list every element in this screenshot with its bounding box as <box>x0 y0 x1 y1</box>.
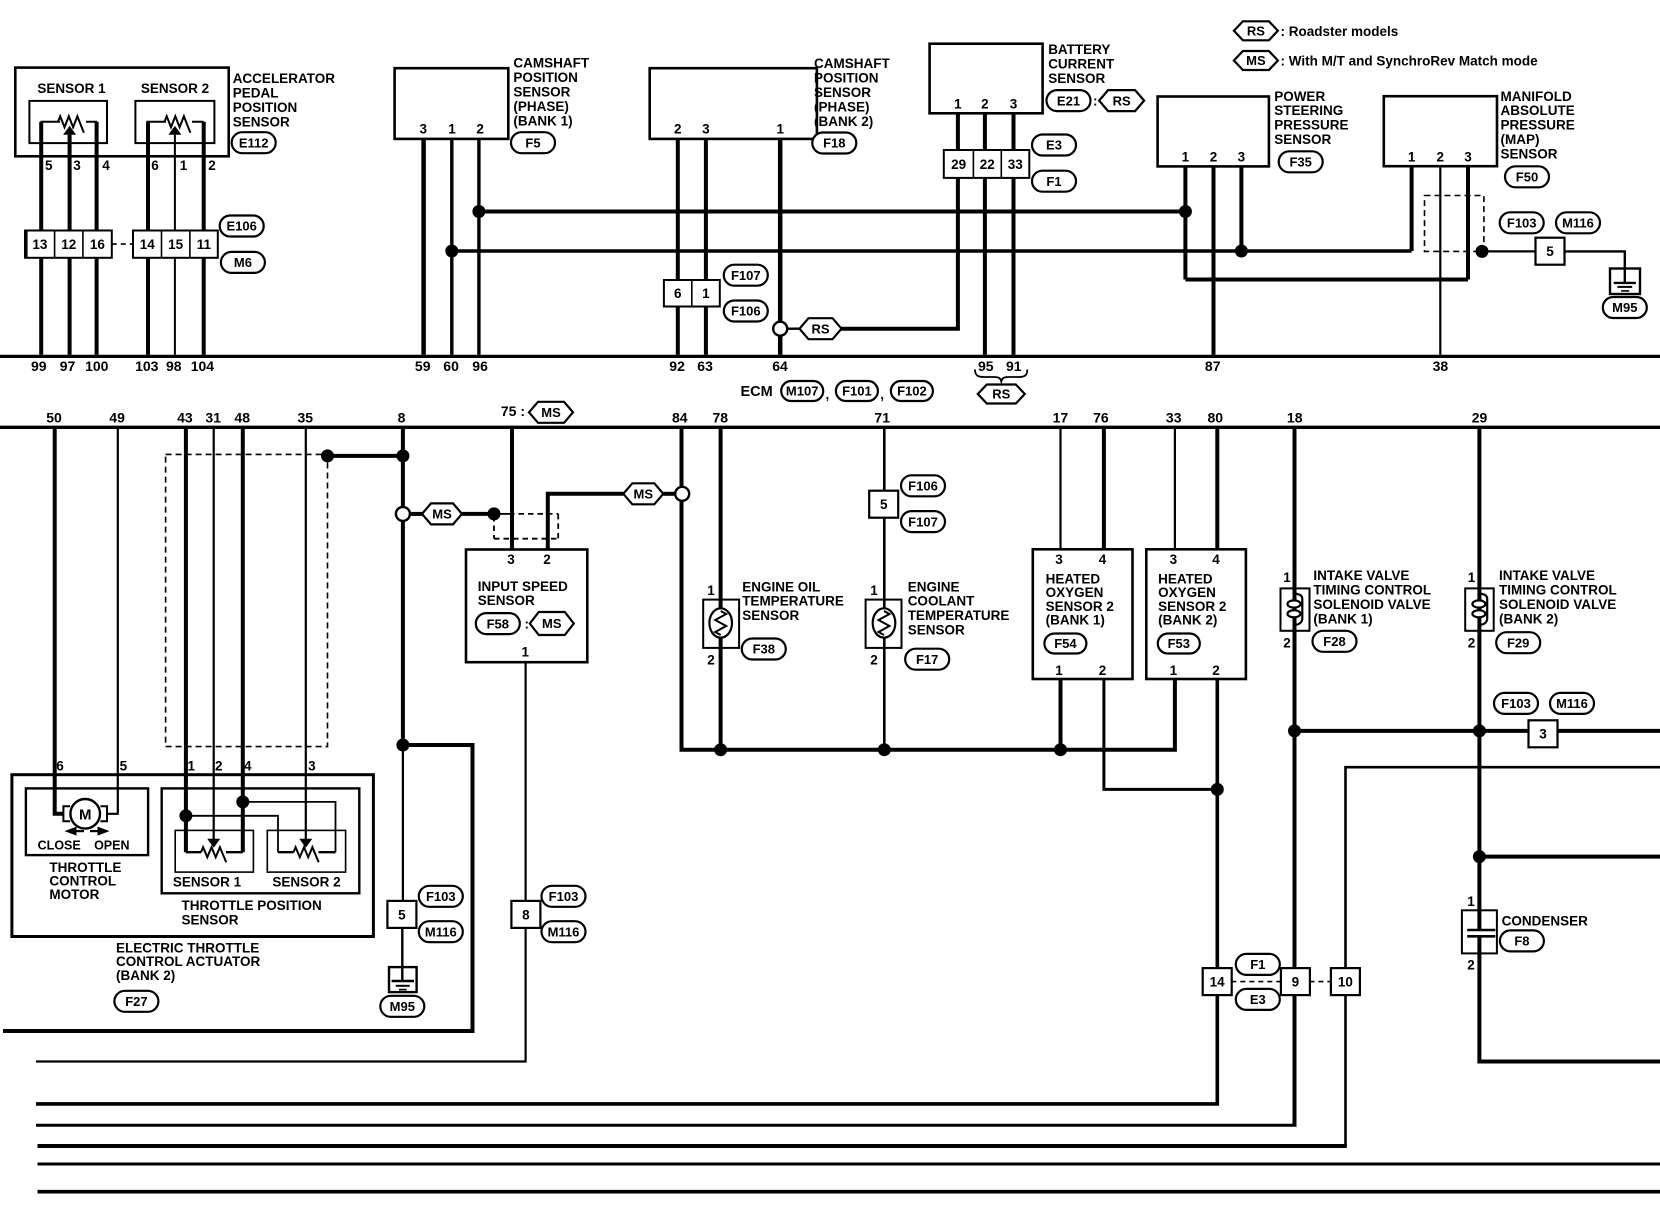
svg-text:2: 2 <box>981 97 989 112</box>
svg-text:2: 2 <box>1437 150 1445 165</box>
wire ECM 18 to solenoid bank1 <box>1293 428 1297 1125</box>
svg-text:6: 6 <box>56 759 64 774</box>
junction dot wire60 <box>445 245 458 258</box>
svg-text:SENSOR 2: SENSOR 2 <box>272 875 340 890</box>
svg-text:OXYGEN: OXYGEN <box>1158 585 1216 600</box>
svg-text:SENSOR: SENSOR <box>1048 71 1105 86</box>
svg-text:75 :: 75 : <box>501 403 525 419</box>
svg-text:98: 98 <box>166 358 182 374</box>
svg-text:INTAKE VALVE: INTAKE VALVE <box>1499 568 1595 583</box>
throttle position sensor box <box>162 788 360 893</box>
engine coolant temperature sensor F17 <box>866 583 902 668</box>
connector F5 oval <box>511 132 555 153</box>
svg-text:50: 50 <box>46 410 62 426</box>
svg-text:2: 2 <box>1283 636 1291 651</box>
wire HO2S2 pin3 to ECM 33 <box>1174 428 1176 549</box>
svg-text:14: 14 <box>1210 975 1226 990</box>
junction dot wire29 branch <box>1473 850 1486 863</box>
svg-text:F17: F17 <box>916 652 938 667</box>
svg-text:F53: F53 <box>1168 636 1190 651</box>
wire condenser pin2 to right edge <box>1479 936 1660 1061</box>
ground M95 oval left <box>380 996 424 1017</box>
svg-text:11: 11 <box>197 237 212 252</box>
svg-text:RS: RS <box>992 387 1010 402</box>
svg-text:2: 2 <box>870 653 878 668</box>
svg-text:CLOSE: CLOSE <box>38 839 81 853</box>
legend RS : Roadster models <box>1234 21 1398 40</box>
bottom bus line 5 <box>38 1144 1347 1148</box>
wire ECM 78 through oil temp sensor <box>719 428 723 750</box>
svg-text:99: 99 <box>31 358 47 374</box>
svg-text:F101: F101 <box>842 384 872 399</box>
svg-text:(BANK 2): (BANK 2) <box>1158 613 1217 628</box>
svg-text:2: 2 <box>208 158 216 173</box>
svg-text:1: 1 <box>707 583 715 598</box>
connector F1 oval bottom <box>1236 954 1280 975</box>
svg-text:95: 95 <box>978 358 994 374</box>
bus PS pin1 to MAP pin3 <box>1185 278 1468 282</box>
label ACCELERATOR PEDAL POSITION SENSOR <box>233 71 336 130</box>
label POWER STEERING PRESSURE SENSOR <box>1274 89 1348 147</box>
connector F103 oval top <box>1500 212 1544 233</box>
label THROTTLE CONTROL MOTOR <box>49 860 121 902</box>
engine oil temperature sensor F38 <box>703 583 739 668</box>
svg-text:SENSOR: SENSOR <box>1501 146 1558 161</box>
svg-text:63: 63 <box>697 358 713 374</box>
connector F106 oval <box>724 301 768 322</box>
svg-text:F50: F50 <box>1516 170 1538 185</box>
svg-text:59: 59 <box>415 358 431 374</box>
svg-text:(MAP): (MAP) <box>1501 132 1540 147</box>
label ENGINE OIL TEMPERATURE SENSOR <box>742 579 844 623</box>
wire HO2S2 pin2 down to bottom line 3 <box>36 679 1217 1104</box>
ECM bottom bus line <box>0 426 1660 429</box>
ECM pin numbers top row <box>31 358 1448 374</box>
connector F27 oval <box>114 991 158 1012</box>
wire pin3 to ECM 97 <box>68 135 72 355</box>
wire ECM 84 upper <box>680 428 684 487</box>
svg-text:1: 1 <box>448 122 456 137</box>
wire pin1 to ECM 98 <box>174 135 176 355</box>
svg-text:(BANK 2): (BANK 2) <box>814 114 873 129</box>
svg-text:87: 87 <box>1205 358 1221 374</box>
manifold absolute pressure sensor F50 box <box>1384 96 1497 166</box>
svg-text:F5: F5 <box>525 135 540 150</box>
shield dashed box input speed sensor <box>494 514 558 539</box>
motor M symbol <box>63 799 107 829</box>
junction dot PS pin1 <box>1179 205 1192 218</box>
svg-text:2: 2 <box>1210 150 1218 165</box>
svg-text:103: 103 <box>135 358 159 374</box>
svg-text:1: 1 <box>521 645 529 660</box>
wire ECM 71 through coolant temp sensor <box>883 428 886 750</box>
svg-text:3: 3 <box>1170 552 1178 567</box>
wire F35 pin1 down <box>1183 166 1187 279</box>
svg-text:3: 3 <box>1464 150 1472 165</box>
svg-text:100: 100 <box>85 358 109 374</box>
potentiometer sensor 2 <box>147 116 204 135</box>
label INTAKE VALVE TIMING CONTROL SOLENOID VALVE (BANK 1) <box>1313 568 1431 627</box>
TPS sensor 1 sub-box <box>175 830 253 872</box>
connector F103 oval right <box>1494 693 1538 714</box>
connector F107 oval mid <box>901 511 945 532</box>
svg-text:29: 29 <box>951 157 966 172</box>
label INTAKE VALVE TIMING CONTROL SOLENOID VALVE (BANK 2) <box>1499 568 1617 627</box>
svg-text:: Roadster models: : Roadster models <box>1281 24 1399 39</box>
battery current sensor E21 box <box>930 44 1043 114</box>
wire F18 pin1 to ECM 64 <box>778 139 783 355</box>
svg-text:RS: RS <box>1113 93 1131 108</box>
svg-text:SENSOR: SENSOR <box>742 608 799 623</box>
junction dot coolant temp sensor <box>878 743 891 756</box>
svg-text:SENSOR 1: SENSOR 1 <box>173 875 242 890</box>
connector E3 oval bottom <box>1236 989 1280 1010</box>
svg-text:2: 2 <box>1468 636 1476 651</box>
wire ECM 29 to solenoid bank2 and condenser <box>1477 428 1481 930</box>
svg-text:OXYGEN: OXYGEN <box>1046 585 1104 600</box>
wire 8 mid <box>401 521 405 745</box>
wire F35 pin2 to ECM 87 <box>1212 166 1216 354</box>
svg-text:F29: F29 <box>1507 635 1529 650</box>
connector 5 square F103/M116 top <box>1536 238 1565 265</box>
heated oxygen sensor 2 bank 2 F53 box <box>1146 549 1246 679</box>
svg-text:3: 3 <box>507 552 515 567</box>
wire input speed pin2 to MS circle <box>548 494 624 550</box>
svg-text:ELECTRIC THROTTLE: ELECTRIC THROTTLE <box>116 940 259 955</box>
svg-text:4: 4 <box>244 759 252 774</box>
wire ECM 8 upper <box>401 428 405 507</box>
label ENGINE COOLANT TEMPERATURE SENSOR <box>908 579 1010 637</box>
junction dot wire96 <box>472 205 485 218</box>
svg-text:SENSOR: SENSOR <box>908 623 965 638</box>
svg-text:76: 76 <box>1093 410 1109 426</box>
svg-text:SENSOR: SENSOR <box>233 115 290 130</box>
accelerator pedal position sensor E112 <box>15 68 228 157</box>
svg-text:E112: E112 <box>239 135 269 150</box>
svg-text:ENGINE: ENGINE <box>908 579 960 594</box>
connector 9 square <box>1281 968 1310 995</box>
svg-text:2: 2 <box>707 653 715 668</box>
svg-text:97: 97 <box>60 358 76 374</box>
svg-text:96: 96 <box>472 358 488 374</box>
heated oxygen sensor 2 bank 1 F54 box <box>1033 549 1133 679</box>
RS hexagon on wire 64 branch <box>787 318 841 339</box>
svg-text:PEDAL: PEDAL <box>233 86 279 101</box>
svg-text:M95: M95 <box>1612 300 1637 315</box>
svg-text:RS: RS <box>811 321 829 336</box>
svg-text:POSITION: POSITION <box>233 100 298 115</box>
svg-text:MS: MS <box>541 405 561 420</box>
wire ECM 31 to TPS pin2 wiper <box>213 428 215 841</box>
junction dot TPS pin4 <box>236 795 249 808</box>
bus wire 96 to PS pin1 <box>479 210 1186 214</box>
connector 8 square F103/M116 <box>511 901 540 928</box>
dashed link 9 to 10 <box>1309 981 1331 983</box>
wire pin4 to ECM 100 <box>95 122 99 355</box>
svg-text::: : <box>1093 94 1098 109</box>
svg-text:F8: F8 <box>1514 934 1529 949</box>
wire connector5 to ground M95 <box>1564 251 1625 282</box>
svg-text:3: 3 <box>73 158 81 173</box>
junction dot wire 8 at branch <box>396 739 409 752</box>
bus thin to right edge with corner down <box>1346 767 1660 1146</box>
svg-text:SENSOR 1: SENSOR 1 <box>37 81 106 96</box>
connector F35 oval <box>1279 151 1323 172</box>
connector 5 square F103/M116 left <box>387 901 416 928</box>
camshaft position sensor (phase)(bank 1) F5 box <box>395 68 509 139</box>
junction dot wire8 top <box>396 449 409 462</box>
ECM pin 75 : MS label <box>501 402 573 423</box>
potentiometer sensor 1 <box>41 116 98 135</box>
svg-text:33: 33 <box>1166 410 1182 426</box>
svg-text:64: 64 <box>772 358 788 374</box>
svg-text:1: 1 <box>954 97 962 112</box>
wire pin6 to ECM 103 <box>146 122 150 355</box>
svg-text:SENSOR 2: SENSOR 2 <box>1158 599 1226 614</box>
svg-text:M95: M95 <box>390 999 415 1014</box>
svg-text:(PHASE): (PHASE) <box>814 100 870 115</box>
svg-text:29: 29 <box>1472 410 1488 426</box>
svg-text:PRESSURE: PRESSURE <box>1274 118 1348 133</box>
svg-text:F54: F54 <box>1054 636 1077 651</box>
ECM pin numbers bottom row <box>46 410 1487 426</box>
svg-text:F107: F107 <box>731 268 761 283</box>
intake valve timing control solenoid valve (bank 2) F29 <box>1465 570 1494 651</box>
svg-text:12: 12 <box>61 237 76 252</box>
svg-text:COOLANT: COOLANT <box>908 594 975 609</box>
ground M95 oval top right <box>1603 297 1647 318</box>
connector F107/F106 6|1 row <box>664 280 720 307</box>
svg-text:22: 22 <box>980 157 995 172</box>
wire input speed pin1 down <box>524 662 526 900</box>
connector E112 oval <box>232 132 276 153</box>
camshaft position sensor (phase)(bank 2) F18 box <box>650 68 817 139</box>
label CAMSHAFT POSITION SENSOR (PHASE)(BANK 2) <box>814 56 890 129</box>
label CONDENSER <box>1502 913 1589 928</box>
svg-text:5: 5 <box>120 759 128 774</box>
svg-text:ABSOLUTE: ABSOLUTE <box>1501 103 1575 118</box>
svg-text:16: 16 <box>90 237 106 252</box>
connector F29 oval <box>1496 632 1540 653</box>
svg-text:MS: MS <box>432 507 452 522</box>
svg-text:MOTOR: MOTOR <box>49 887 99 902</box>
svg-text:3: 3 <box>702 122 710 137</box>
wire F50 pin2 to ECM 38 <box>1439 166 1441 355</box>
svg-text:4: 4 <box>102 158 110 173</box>
svg-text:TEMPERATURE: TEMPERATURE <box>908 608 1010 623</box>
wire pin5 to ECM 99 <box>39 122 43 355</box>
svg-text:(BANK 1): (BANK 1) <box>513 114 572 129</box>
throttle control motor box <box>26 788 148 855</box>
svg-text:HEATED: HEATED <box>1158 571 1213 586</box>
svg-text:E3: E3 <box>1250 992 1266 1007</box>
junction dot shield corner <box>321 449 334 462</box>
svg-text:F106: F106 <box>908 479 938 494</box>
connector F103 oval mid <box>542 886 586 907</box>
connector F103 oval left <box>419 886 463 907</box>
svg-text:78: 78 <box>713 410 729 426</box>
svg-text:49: 49 <box>109 410 125 426</box>
wire branch from wire8 to bottom line 1 <box>3 745 473 1031</box>
svg-text:1: 1 <box>188 759 196 774</box>
svg-text:TIMING CONTROL: TIMING CONTROL <box>1499 582 1617 597</box>
wire F18 pin3 to ECM 63 <box>704 139 708 355</box>
svg-text:STEERING: STEERING <box>1274 103 1343 118</box>
svg-text:18: 18 <box>1287 410 1303 426</box>
routing TPS pin4 to sensor2 right <box>243 802 336 852</box>
svg-text:3: 3 <box>1238 150 1246 165</box>
MS hexagon on pin2 branch <box>623 483 675 504</box>
wire shield to ground connector 5 <box>1482 250 1536 252</box>
svg-text:F103: F103 <box>426 889 456 904</box>
svg-text:SOLENOID VALVE: SOLENOID VALVE <box>1313 597 1430 612</box>
svg-text:5: 5 <box>1546 244 1554 259</box>
label BATTERY CURRENT SENSOR <box>1048 42 1115 86</box>
connector F1 oval <box>1032 171 1076 192</box>
svg-text:M107: M107 <box>786 384 819 399</box>
shield dashed box MAP <box>1425 196 1484 252</box>
svg-text:1: 1 <box>702 286 710 301</box>
svg-text:F103: F103 <box>1501 696 1531 711</box>
svg-text:13: 13 <box>32 237 48 252</box>
connector M116 oval left <box>419 921 463 942</box>
RS hexagon under brace <box>978 385 1025 404</box>
svg-text:71: 71 <box>874 410 890 426</box>
shield dashed box throttle <box>166 454 328 746</box>
svg-text:17: 17 <box>1053 410 1069 426</box>
svg-text:3: 3 <box>1010 97 1018 112</box>
svg-text:ACCELERATOR: ACCELERATOR <box>233 71 336 86</box>
svg-text:(BANK 2): (BANK 2) <box>116 968 175 983</box>
svg-text:43: 43 <box>177 410 193 426</box>
svg-text:ENGINE OIL: ENGINE OIL <box>742 579 820 594</box>
bottom bus line 4 <box>36 1124 1297 1127</box>
junction dot wire18 bus <box>1288 724 1301 737</box>
wire HO2S1 pin1 down <box>1059 679 1063 750</box>
svg-text:3: 3 <box>308 759 316 774</box>
svg-text:TIMING CONTROL: TIMING CONTROL <box>1313 582 1431 597</box>
svg-text:MS: MS <box>634 487 654 502</box>
connector 5 square F106/F107 <box>869 491 898 518</box>
wire E21 pin1 down to RS branch <box>841 113 958 328</box>
svg-text:91: 91 <box>1006 358 1022 374</box>
svg-text:2: 2 <box>476 122 484 137</box>
bus wire18 to right edge with connector 3 <box>1295 729 1660 733</box>
label THROTTLE POSITION SENSOR <box>182 898 322 928</box>
svg-text:CAMSHAFT: CAMSHAFT <box>513 56 589 71</box>
svg-text:92: 92 <box>669 358 685 374</box>
svg-text:F106: F106 <box>731 304 761 319</box>
svg-text:CAMSHAFT: CAMSHAFT <box>814 56 890 71</box>
svg-text:E21: E21 <box>1057 93 1080 108</box>
wire ECM 75 to input speed sensor pin3 <box>510 428 514 550</box>
ECM label with connector ovals <box>741 381 933 402</box>
svg-text:HEATED: HEATED <box>1046 571 1101 586</box>
wire ECM 84 lower to sensor ground bus <box>682 501 1175 750</box>
svg-text:1: 1 <box>1170 663 1178 678</box>
svg-text:F28: F28 <box>1323 634 1345 649</box>
connector E21 oval : RS <box>1047 90 1145 111</box>
connector M116 oval right <box>1550 693 1594 714</box>
svg-text:84: 84 <box>672 410 688 426</box>
svg-text:E3: E3 <box>1046 138 1062 153</box>
svg-text:48: 48 <box>234 410 250 426</box>
brace under 95 91 <box>975 370 1027 382</box>
svg-text:F27: F27 <box>125 994 147 1009</box>
svg-text:INPUT SPEED: INPUT SPEED <box>478 579 568 594</box>
svg-text:F102: F102 <box>897 384 927 399</box>
svg-text:3: 3 <box>1055 552 1063 567</box>
svg-text:2: 2 <box>1212 663 1220 678</box>
svg-text:6: 6 <box>674 286 682 301</box>
svg-text:INTAKE VALVE: INTAKE VALVE <box>1313 568 1409 583</box>
svg-text:ECM: ECM <box>741 384 773 400</box>
svg-text:1: 1 <box>1182 150 1190 165</box>
svg-text:3: 3 <box>420 122 428 137</box>
svg-text:9: 9 <box>1292 975 1300 990</box>
svg-text:MANIFOLD: MANIFOLD <box>1501 89 1572 104</box>
wire ECM 49 to throttle motor pin5 <box>108 428 118 814</box>
svg-text:M116: M116 <box>425 924 457 939</box>
svg-text:E106: E106 <box>227 219 257 234</box>
svg-text:5: 5 <box>880 497 888 512</box>
TPS sensor2 resistor <box>278 839 336 862</box>
wire HO2S1 pin3 to ECM 17 <box>1059 428 1061 549</box>
svg-text:POSITION: POSITION <box>814 71 879 86</box>
bus wire 60 to MAP pin1 <box>452 249 1412 252</box>
svg-text:2: 2 <box>543 552 551 567</box>
svg-text:POWER: POWER <box>1274 89 1325 104</box>
wire pin2 to ECM 104 <box>202 122 206 355</box>
svg-text:: With M/T and SynchroRev Matc: : With M/T and SynchroRev Match mode <box>1281 54 1539 69</box>
TPS sensor 2 sub-box <box>267 830 345 872</box>
junction dot PS pin3 <box>1235 245 1248 258</box>
svg-text:(PHASE): (PHASE) <box>513 99 569 114</box>
svg-text:SENSOR: SENSOR <box>478 593 535 608</box>
svg-text:SENSOR: SENSOR <box>814 85 871 100</box>
svg-text:38: 38 <box>1433 358 1449 374</box>
wire F5 pin1 to ECM 60 <box>450 139 453 355</box>
labels SENSOR 1 SENSOR 2 <box>173 875 341 890</box>
svg-text:MS: MS <box>1246 53 1266 68</box>
svg-text:CONTROL ACTUATOR: CONTROL ACTUATOR <box>116 954 260 969</box>
label ELECTRIC THROTTLE CONTROL ACTUATOR (BANK 2) <box>116 940 260 983</box>
wire ECM 48 to TPS pin4 <box>241 428 245 852</box>
svg-text:THROTTLE POSITION: THROTTLE POSITION <box>182 898 322 913</box>
svg-text:SENSOR: SENSOR <box>1274 132 1331 147</box>
svg-text:1: 1 <box>776 122 784 137</box>
svg-text:8: 8 <box>398 410 406 426</box>
junction dot HO2S2 pin2 wire <box>1211 783 1224 796</box>
open circle on wire 84 <box>675 487 689 501</box>
connector 14 square <box>1203 968 1232 995</box>
bottom bus line 7 <box>38 1190 1660 1194</box>
wire ECM 35 to TPS pin3 wiper <box>305 428 307 841</box>
svg-text:,: , <box>826 387 830 402</box>
svg-text:POSITION: POSITION <box>513 70 578 85</box>
ground symbol M95 left <box>389 967 417 992</box>
svg-text:1: 1 <box>870 583 878 598</box>
svg-text:80: 80 <box>1208 410 1224 426</box>
svg-text:8: 8 <box>522 907 530 922</box>
svg-text:1: 1 <box>1468 570 1476 585</box>
electric throttle control actuator outer box <box>12 775 374 937</box>
label CAMSHAFT POSITION SENSOR (PHASE)(BANK 1) <box>513 56 589 129</box>
svg-text:CONDENSER: CONDENSER <box>1502 913 1589 928</box>
connector F18 oval <box>812 133 856 154</box>
dashed link 14 to 9 <box>1231 981 1281 983</box>
svg-text:F1: F1 <box>1046 174 1061 189</box>
